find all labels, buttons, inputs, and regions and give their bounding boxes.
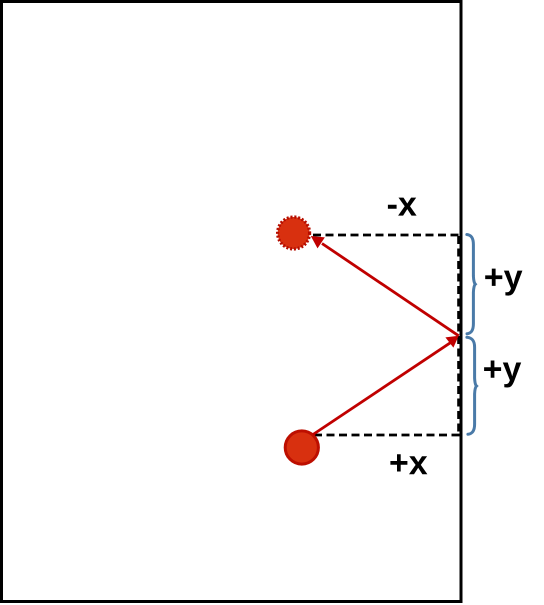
label +y (plusy1) (485, 269, 522, 296)
brace bottom (+y lower) (467, 337, 477, 434)
label -x (minusx) (388, 198, 417, 216)
arrow 2 line (lower circle to wall) (313, 342, 451, 434)
arrow 1 line (wall to upper circle) (322, 244, 459, 336)
top dashed line (313, 234, 460, 237)
arrow 2 head (445, 336, 458, 348)
brace top (+y upper) (467, 235, 476, 334)
upper circle (image ball, dotted border) (278, 217, 310, 249)
vertical dashed line (457, 236, 460, 435)
lower circle (start ball) (285, 431, 318, 464)
label +y (plusy2) (484, 361, 521, 388)
arrow 1 head (311, 236, 325, 248)
label +x (plusx) (390, 454, 427, 474)
bottom dashed line (314, 434, 460, 437)
